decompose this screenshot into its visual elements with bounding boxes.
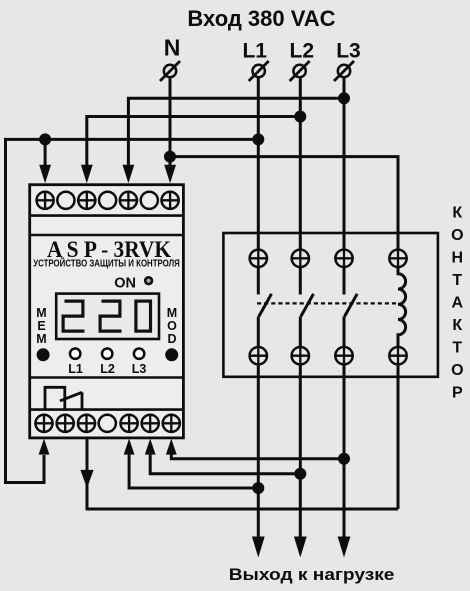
svg-text:L1: L1: [68, 362, 83, 376]
svg-text:Т: Т: [452, 272, 462, 289]
svg-text:О: О: [451, 362, 463, 379]
svg-text:Н: Н: [452, 249, 464, 266]
svg-text:D: D: [167, 332, 176, 346]
svg-text:L2: L2: [100, 362, 115, 376]
svg-text:E: E: [37, 319, 45, 333]
svg-text:ON: ON: [114, 275, 136, 291]
svg-text:Т: Т: [452, 339, 462, 356]
svg-text:M: M: [167, 306, 177, 320]
svg-text:M: M: [36, 306, 46, 320]
svg-text:К: К: [452, 204, 462, 221]
svg-text:Выход к нагрузке: Выход к нагрузке: [229, 566, 395, 584]
svg-text:M: M: [36, 332, 46, 346]
svg-text:Р: Р: [452, 384, 463, 401]
svg-text:L3: L3: [336, 40, 361, 63]
svg-text:А: А: [452, 294, 464, 311]
svg-text:L3: L3: [132, 362, 147, 376]
svg-text:N: N: [164, 35, 181, 61]
svg-text:О: О: [451, 227, 463, 244]
svg-text:L1: L1: [242, 40, 267, 63]
svg-text:O: O: [167, 319, 177, 333]
svg-text:К: К: [452, 317, 462, 334]
svg-text:L2: L2: [290, 40, 315, 63]
svg-text:УСТРОЙСТВО ЗАЩИТЫ И КОНТРОЛЯ: УСТРОЙСТВО ЗАЩИТЫ И КОНТРОЛЯ: [33, 257, 180, 269]
svg-text:Вход 380 VAC: Вход 380 VAC: [187, 6, 335, 31]
